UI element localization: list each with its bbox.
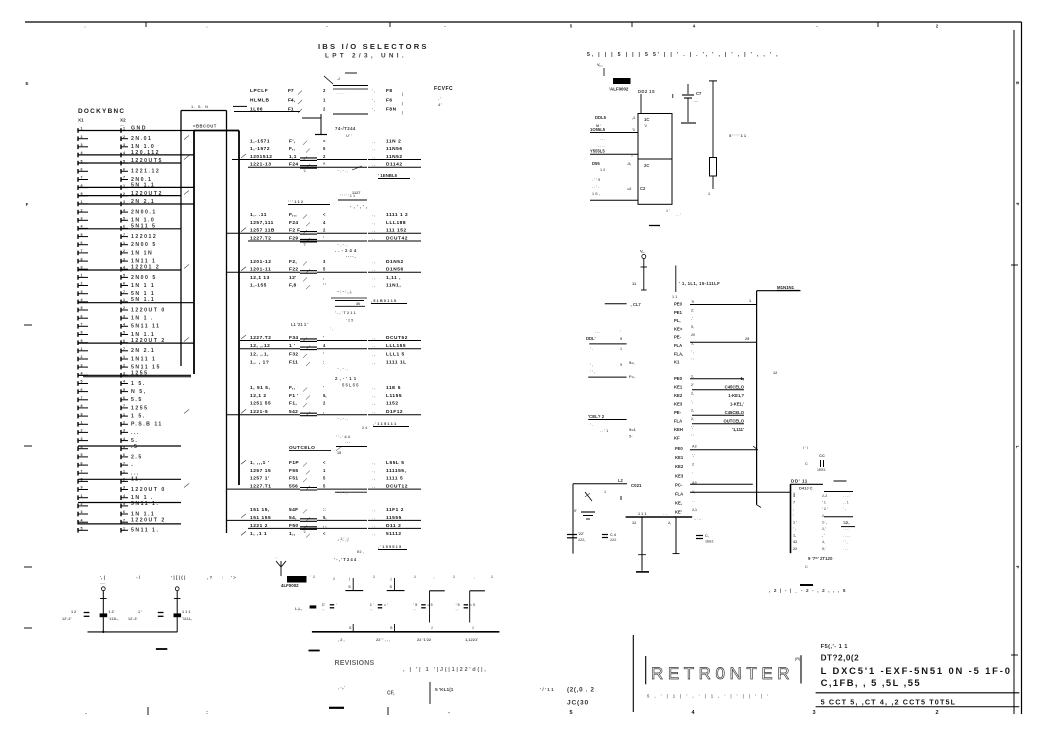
svg-text:' 1, 1L1, 15-111LF: ' 1, 1L1, 15-111LF (679, 281, 720, 286)
buffer U3 row 1227.T2 resistor F29 (250, 235, 408, 242)
svg-text:F32: F32 (289, 351, 298, 357)
connector P1 pin row 39 5. (78, 437, 138, 444)
svg-text:C 4: C 4 (610, 533, 617, 537)
svg-text:KE2: KE2 (675, 464, 684, 469)
svg-text:' ': ' ' (275, 557, 278, 561)
svg-text:' ,: ' , (691, 350, 694, 354)
svg-text:1111 1L: 1111 1L (386, 359, 407, 365)
svg-text:L DXC5'1 -EXF-5N51 0N -5 1F-: L DXC5'1 -EXF-5N51 0N -5 1F-0 (821, 665, 1012, 676)
wire buffer input (227, 519, 335, 522)
connector P1 pin row 48 1N 1.1 (78, 510, 155, 517)
svg-text:F6: F6 (386, 98, 393, 104)
buffer U3 row 1257 11B resistor F2 F (250, 228, 407, 235)
svg-text:',: ', (691, 400, 693, 404)
svg-text:'2: '2 (303, 169, 306, 173)
wire DD41 right c (824, 516, 853, 518)
svg-text:2: 2 (323, 154, 326, 159)
svg-text:7: 7 (81, 396, 83, 400)
svg-text:. . . .: . . . . (598, 144, 605, 148)
resistor network R61 branch (387, 577, 405, 591)
svg-text:PE-: PE- (674, 410, 682, 415)
svg-text:<: < (323, 138, 326, 143)
svg-text:5: 5 (81, 527, 83, 531)
wire label underline (248, 166, 421, 173)
wire header stub (672, 266, 677, 300)
svg-text:KEH: KEH (674, 427, 683, 432)
svg-text:2: 2 (414, 575, 416, 579)
svg-text:9: 9 (81, 486, 83, 490)
svg-text:4: 4 (123, 380, 125, 384)
svg-text:5,: 5, (691, 325, 694, 329)
gate U4 marks (331, 290, 367, 298)
svg-text:' ' ,: ' ' , (843, 540, 847, 544)
svg-text:. ,: . , (372, 268, 375, 272)
buffer U4 tilde marks (337, 290, 348, 294)
svg-text:2: 2 (333, 577, 335, 581)
net block left of header (586, 330, 635, 379)
svg-text:DDL': DDL' (586, 336, 596, 341)
wire net block 1 (589, 343, 626, 345)
connector P1 pin row 5 1220UT5 (78, 158, 163, 165)
svg-text:<BBCOUT: <BBCOUT (193, 124, 217, 129)
connector P1 pin row 27 1220UT 2 (78, 338, 166, 345)
svg-text:. ,: . , (372, 461, 375, 465)
svg-text:6: 6 (81, 241, 83, 245)
gate segment line (335, 414, 367, 416)
wire buffer input (232, 158, 335, 161)
svg-text:1 1: 1 1 (672, 295, 677, 299)
svg-text:22: 22 (793, 547, 797, 551)
svg-text:- 2 ' , |: - 2 ' , | (338, 537, 349, 541)
wire buffer output underline (368, 414, 421, 416)
svg-text:' | [ | ( |: ' | [ | ( | (171, 575, 185, 580)
wire buffer output underline (368, 348, 421, 350)
svg-text:5N11 1.: 5N11 1. (131, 528, 159, 534)
wire buffer output underline (368, 488, 421, 490)
connector P1 pin row 1 GND (78, 126, 147, 133)
wire resistor row verticals (349, 624, 474, 632)
svg-text:. ,: . , (372, 147, 375, 151)
svg-text:2,: 2, (691, 374, 694, 378)
svg-text:1 S ,: 1 S , (592, 192, 600, 196)
header pin row2 FLA (674, 417, 745, 424)
svg-text:3: 3 (123, 314, 125, 318)
svg-text:. . ': . . ' (676, 213, 681, 217)
svg-text:2:: 2: (691, 308, 694, 312)
svg-text:2.5: 2.5 (131, 454, 143, 460)
ground symbol rail (636, 571, 649, 573)
gate segment line (335, 488, 367, 490)
label R 4.7K (729, 133, 747, 138)
svg-text:DD2 1S: DD2 1S (638, 89, 655, 94)
logo tagline (647, 694, 770, 699)
buffer U4 row 1,-155 resistor F,8 (250, 283, 401, 290)
svg-text:<: < (323, 212, 326, 217)
svg-text:~ , ~ . ,: ~ , ~ . , (337, 243, 348, 247)
wire buffer input (227, 413, 335, 416)
title text IBM I/O SELECTORS (318, 42, 429, 60)
resistor network R62 branch corner (430, 577, 445, 623)
svg-text:C': C' (322, 603, 326, 607)
ground bar bottom mid (309, 650, 320, 652)
svg-text:': ' (323, 351, 324, 356)
title block separator line 2 (816, 706, 1020, 708)
svg-text:C: C (805, 462, 808, 466)
svg-text:. ,: . , (372, 155, 375, 159)
gate DENBLB output (352, 166, 410, 179)
resistor network R60 branch (345, 577, 363, 591)
svg-text:2: 2 (123, 249, 125, 253)
svg-text:': ' (692, 472, 693, 476)
buffer U3 row 1,. .11 resistor F,,, (250, 212, 408, 219)
gate IBNIII output (336, 421, 409, 446)
svg-text:....: .... (694, 99, 698, 103)
svg-text:OUTCELO: OUTCELO (289, 445, 315, 451)
svg-text:C45CELO: C45CELO (725, 384, 745, 389)
net label E2 group2 (288, 190, 367, 205)
wire DD41 right a (834, 480, 847, 482)
connector P1 pin row 30 5N11 15 (78, 363, 161, 370)
svg-text:L,L,: L,L, (295, 606, 302, 611)
header pin row2 KE2 (674, 391, 744, 398)
svg-text:11N1,: 11N1, (386, 283, 401, 289)
svg-text:5,': 5,' (822, 547, 826, 551)
connector P1 pin row 42 - (78, 461, 134, 468)
svg-text:<: < (323, 531, 326, 536)
svg-text:1N 1N: 1N 1N (131, 250, 153, 256)
wire header output underline (692, 414, 744, 416)
svg-text:F,,: F,, (289, 385, 296, 391)
labels under rail (338, 637, 478, 642)
svg-text:1: 1 (708, 192, 710, 196)
svg-text:V,,: V,, (640, 249, 645, 254)
svg-text:. ,: . , (372, 485, 375, 489)
svg-text:-: - (131, 463, 134, 469)
svg-text:, 5 1 B 0 1 1 5: , 5 1 B 0 1 1 5 (371, 298, 397, 303)
svg-text:12'-2': 12'-2' (62, 617, 72, 621)
svg-text:DOCKYBNC: DOCKYBNC (78, 108, 125, 115)
svg-text:', |: ', | (100, 575, 105, 580)
svg-text:. ,: . , (372, 221, 375, 225)
wire L2 corner (573, 478, 642, 554)
svg-text:1,. , 1?: 1,. , 1? (250, 359, 269, 365)
svg-text:2N00.1: 2N00.1 (131, 210, 157, 216)
svg-text:F55: F55 (289, 468, 298, 474)
svg-text:2 , - ' 1 1: 2 , - ' 1 1 (335, 376, 357, 381)
svg-text:5 ' ' ' ' 1 1: 5 ' ' ' ' 1 1 (729, 133, 747, 138)
svg-text:2,: 2, (691, 391, 694, 395)
svg-text:-: - (816, 24, 818, 29)
power symbol Vcc top (597, 62, 604, 76)
wire row3 c into DD41 (690, 492, 795, 496)
svg-text:5, | | | 5 | | | 5 5' | | ': 5, | | | 5 | | | 5 5' | | ' . | . ', ' ,… (587, 52, 779, 58)
header pin row3 FE0 (675, 445, 697, 452)
svg-text:3: 3 (812, 710, 815, 716)
svg-text:11N56: 11N56 (386, 146, 403, 152)
capacitor symbol bottom row (322, 603, 337, 613)
svg-text:' ': ' ' (322, 609, 325, 613)
svg-text:. ,: . , (372, 469, 375, 473)
svg-text:|: | (402, 102, 403, 106)
connector P1 pin row 14 122012 (78, 233, 157, 240)
svg-text:2: 2 (123, 421, 125, 425)
svg-text:N 5,: N 5, (131, 389, 147, 395)
svg-text:7: 7 (123, 404, 125, 408)
title block separator vertical (632, 635, 634, 712)
svg-text:'9: '9 (691, 300, 694, 304)
svg-text:4 ': 4 ' (438, 103, 442, 107)
svg-text:12'-3': 12'-3' (128, 617, 138, 621)
svg-text:1 1 1: 1 1 1 (638, 512, 646, 516)
svg-text:6: 6 (123, 168, 125, 172)
buffer U5 row 12, ,.1, resistor F32 (250, 351, 405, 358)
connector P1 pin row 8 5N 1.1 (78, 183, 155, 190)
svg-text:PE-: PE- (674, 335, 682, 340)
svg-text:C,1FB, , 5 ,5L ,55: C,1FB, , 5 ,5L ,55 (821, 677, 921, 688)
wire label underline (248, 527, 421, 534)
pin mark (414, 575, 416, 579)
svg-text:2- ,: 2- , (822, 520, 827, 524)
svg-text:1251 55: 1251 55 (250, 401, 271, 407)
svg-text:2N00 5: 2N00 5 (131, 242, 157, 248)
svg-text:122012: 122012 (131, 234, 157, 240)
svg-text:1220UT 0: 1220UT 0 (131, 487, 166, 493)
buffer U5 row 1,. , 1? resistor F11 (250, 359, 407, 366)
svg-text:F,,: F,, (289, 146, 296, 152)
svg-text:S: S (349, 626, 352, 630)
svg-text:KE>: KE> (674, 326, 683, 331)
svg-text:1111 5: 1111 5 (386, 476, 403, 482)
gate segment line (335, 348, 367, 350)
svg-text:4: 4 (693, 24, 696, 29)
svg-text:5: 5 (570, 24, 573, 29)
svg-text:'111L,: '111L, (108, 617, 118, 621)
sheet border right outer line (1021, 22, 1023, 714)
svg-text:1 5.: 1 5. (131, 381, 146, 387)
svg-text:11N 2: 11N 2 (386, 138, 401, 144)
bus entry hook marks (184, 136, 246, 536)
svg-text:. . . .: . . . . (843, 527, 850, 531)
buffer buffer U3 label (350, 204, 368, 209)
svg-text:3: 3 (323, 259, 326, 264)
svg-text:4: 4 (323, 343, 326, 348)
capacitor symbol bottom row (370, 603, 388, 613)
svg-text:222,: 222, (578, 538, 585, 542)
svg-text:12': 12' (289, 275, 297, 281)
svg-text:3: 3 (123, 429, 125, 433)
buffer U4 row 1201-11 resistor F22 (250, 267, 404, 274)
svg-text:FLA,: FLA, (674, 351, 683, 356)
svg-text:2,': 2,' (822, 527, 826, 531)
svg-text:1,11 ,: 1,11 , (386, 275, 401, 281)
bus loop inner (194, 131, 239, 486)
svg-text:5 , ' | 1 | ' , ' | 1 , ' | ': 5 , ' | 1 | ' , ' | 1 , ' | ' | | ' | ' (647, 694, 770, 699)
svg-text:1: 1 (81, 494, 83, 498)
svg-text:. ,: . , (372, 139, 375, 143)
svg-text:-: - (448, 710, 450, 716)
svg-text:' 2 5: ' 2 5 (346, 319, 353, 323)
svg-text:2: 2 (692, 463, 694, 467)
svg-text:KE2: KE2 (674, 393, 683, 398)
header pin row FLA (674, 342, 694, 349)
svg-text:F1 ': F1 ' (289, 393, 299, 399)
svg-text:1: 1 (123, 527, 125, 531)
svg-text:, CL7: , CL7 (631, 302, 642, 307)
svg-text:' >: ' > (231, 575, 236, 580)
svg-text:DDL5: DDL5 (595, 115, 607, 120)
svg-text:IBS I/O SELECTORS: IBS I/O SELECTORS (318, 42, 429, 51)
svg-text:. ' ' 5: . ' ' 5 (592, 178, 600, 182)
sheet border top line (25, 21, 1022, 23)
svg-text:5N11 11: 5N11 11 (131, 324, 161, 330)
svg-text:5: 5 (81, 453, 83, 457)
connector P1 pin row 15 2N00 5 (78, 241, 157, 248)
svg-text:8: 8 (81, 331, 83, 335)
svg-text:' / ' 1 1: ' / ' 1 1 (540, 687, 554, 692)
svg-text:::: :: (323, 507, 326, 512)
wire DD41 right b (824, 491, 853, 493)
svg-text:' ': ' ' (691, 434, 694, 438)
svg-text:F1,: F1, (289, 401, 297, 407)
svg-text:'2: '2 (303, 530, 306, 534)
svg-text:FLA: FLA (675, 492, 683, 497)
wire rail stub 2 (668, 517, 680, 554)
svg-text:, ,: , , (323, 523, 327, 528)
svg-text:1257 1': 1257 1' (250, 476, 270, 482)
header pin row3 KE3 (675, 472, 693, 479)
svg-text::: : (222, 575, 223, 580)
title block separator line 1 (816, 692, 1020, 694)
svg-text:^: ^ (323, 162, 326, 167)
svg-text:15: 15 (337, 451, 341, 455)
connector P1 pin row 24 1N 1 . (78, 314, 154, 321)
svg-text:\ ' /: \ ' / (803, 446, 809, 450)
svg-text:2 4: 2 4 (362, 426, 368, 430)
wire from P1 into bus (78, 186, 194, 188)
capacitor C24 (602, 533, 617, 542)
svg-text:5-: 5- (629, 434, 633, 439)
svg-text:F',: F', (289, 138, 296, 144)
wire bus bottom exit (83, 376, 191, 378)
svg-text:2: 2 (81, 355, 83, 359)
svg-text:F,,,: F,,, (289, 212, 297, 218)
svg-text:FE0: FE0 (675, 446, 683, 451)
buffer U8 row 1221 2 resistor F50 (250, 523, 401, 530)
wire buffer output underline (368, 340, 421, 342)
svg-text:' ,: ' , (590, 363, 593, 367)
svg-text:1: 1 (123, 469, 125, 473)
svg-text:3: 3 (81, 143, 83, 147)
svg-text:-2: -2 (337, 77, 340, 81)
svg-text:F24: F24 (289, 220, 298, 226)
connector P1 pin row 10 2N 2.1 (78, 199, 155, 206)
header pin row PE- (674, 333, 695, 340)
svg-text:,: , (793, 507, 794, 511)
svg-text:LLL1 5: LLL1 5 (386, 351, 405, 357)
svg-text:'22': '22' (578, 532, 584, 536)
svg-text:E: E (1014, 81, 1020, 85)
svg-text:|: | (402, 111, 403, 115)
svg-text:5 CCT 5, ,CT 4, ,2 CCT5 T0T5: 5 CCT 5, ,CT 4, ,2 CCT5 T0T5L (821, 698, 957, 707)
connector P1 pin row 25 5N11 11 (78, 323, 161, 330)
svg-text:1N 1 1: 1N 1 1 (131, 283, 155, 289)
text CP (338, 685, 395, 697)
svg-text:.: . (84, 24, 85, 29)
svg-text:1 ': 1 ' (666, 209, 670, 213)
svg-text:5: 5 (323, 476, 326, 481)
svg-text:F: F (1014, 566, 1020, 569)
svg-text:25: 25 (745, 337, 749, 341)
capacitor C7 (681, 84, 702, 123)
svg-text:'2: '2 (644, 124, 647, 128)
wire to U9B (590, 199, 638, 201)
connector P1 DOCKYBND header (78, 108, 126, 127)
svg-text:4: 4 (123, 494, 125, 498)
buffer U3 tilde marks (337, 243, 348, 247)
svg-text:' ' - ' 4 4: ' ' - ' 4 4 (336, 434, 351, 439)
svg-text:, ' 1 5 5 5 1 5: , ' 1 5 5 5 1 5 (378, 544, 402, 549)
svg-text:3: 3 (123, 257, 125, 261)
buffer U2 row 1221-13 resistor F24 (250, 162, 403, 169)
svg-text:1255: 1255 (131, 405, 149, 411)
svg-text:F8: F8 (386, 88, 393, 94)
buffer U1 label 74HCT244 (335, 126, 356, 138)
wire row3 a (690, 446, 758, 450)
svg-text:FLA: FLA (674, 343, 682, 348)
svg-text:D41J C: D41J C (799, 486, 813, 491)
svg-text:2,: 2, (668, 521, 671, 525)
svg-text:' .: ' . (590, 423, 593, 427)
svg-text:2C: 2C (644, 163, 649, 168)
svg-text:2: 2 (935, 710, 938, 716)
svg-text:1: 1 (604, 490, 606, 494)
svg-text:' ': ' ' (323, 283, 326, 288)
svg-text:5,: 5, (323, 515, 327, 520)
capacitor C near rail (694, 518, 714, 544)
svg-text:L: L (1014, 446, 1020, 449)
svg-text:1 2: 1 2 (600, 168, 605, 172)
connector P1 pin row 19 2N00 5 (78, 274, 157, 281)
svg-text:KE': KE' (675, 510, 682, 515)
wire ILO6 row (234, 111, 300, 113)
wire from P1 into bus (78, 162, 181, 164)
svg-text:2: 2 (123, 363, 125, 367)
svg-text:' ,: ' , (843, 507, 846, 511)
wire from P1 into bus (78, 445, 181, 447)
svg-text:1,,: 1,, (289, 531, 296, 537)
svg-text:K1: K1 (674, 360, 680, 365)
svg-text:54,: 54, (289, 515, 297, 521)
capacitor C22 on branch (567, 532, 585, 542)
svg-text:F: F (26, 202, 29, 207)
svg-text:1 ': 1 ' (370, 603, 374, 607)
svg-text:'CEL? 2: 'CEL? 2 (588, 414, 605, 419)
svg-text:'ALF0002: 'ALF0002 (609, 87, 629, 92)
svg-text:2,: 2, (691, 408, 694, 412)
buffer U2 tilde marks (337, 169, 348, 173)
svg-text:E: E (25, 81, 28, 86)
svg-text:' 1: ' 1 (822, 501, 826, 505)
svg-text:. ,: . , (372, 524, 375, 528)
buffer U7 row 1227.T1 resistor 556 (250, 484, 408, 491)
svg-text:~ , ~ . ,: ~ , ~ . , (337, 417, 348, 421)
buffer U6 row 1, 51 5, resistor F,, (250, 385, 401, 392)
svg-text:5': 5' (574, 509, 577, 513)
ground bar DD41 (800, 584, 813, 586)
svg-text:30: 30 (356, 302, 360, 306)
svg-text:1, 51 5,: 1, 51 5, (250, 385, 271, 391)
svg-text:1257 15: 1257 15 (250, 468, 271, 474)
